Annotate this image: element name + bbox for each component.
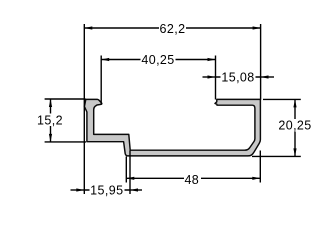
svg-text:15,08: 15,08 <box>221 70 254 84</box>
svg-text:15,2: 15,2 <box>37 114 63 128</box>
dimension 62,2 : extension line left (long, shared with 15,95) <box>83 24 85 194</box>
svg-text:20,25: 20,25 <box>278 119 311 133</box>
dimension 15,95 : right arrow (outside, pointing left) <box>130 188 138 191</box>
dimension 15,08 : left outside tail <box>203 76 216 78</box>
dimension 15,95 : left arrow (outside, pointing right) <box>76 188 84 191</box>
dimension 15,08 : left arrow (outside, pointing right) <box>208 75 216 78</box>
dimension 15,2 : top arrow <box>49 99 52 107</box>
dimension 62,2 : dimension line <box>84 27 260 29</box>
dimension 48 : left arrow <box>126 177 134 180</box>
dimension 20,25 : top arrow <box>293 99 296 107</box>
dimension 20,25 : bottom arrow <box>293 148 296 156</box>
dimension 15,95 : extension line right <box>129 151 131 195</box>
dimension 40,25 : right arrow <box>208 58 216 61</box>
dimension 20,25 : text label <box>278 119 313 132</box>
dimension 48 : text label <box>184 173 201 185</box>
dimension 15,2 : bottom arrow <box>49 134 52 142</box>
dimension 15,2 : dimension line <box>50 99 52 142</box>
dimension 48 : extension line left <box>125 157 127 183</box>
dimension 48 : right arrow <box>252 177 260 180</box>
dimension 15,08 : right arrow (outside, pointing left) <box>261 75 269 78</box>
dimension 15,2 : extension line bottom <box>45 141 86 143</box>
svg-text:15,95: 15,95 <box>90 184 123 198</box>
dimension 20,25 : dimension line <box>294 99 296 156</box>
dimension 40,25 : dimension line <box>101 59 215 61</box>
dimension 40,25 : extension line right (shared with 15,08) <box>215 56 217 100</box>
dimension 62,2 : extension line right upper <box>260 24 262 100</box>
dimension 48 : dimension line <box>126 177 260 179</box>
dimension 40,25 : extension line left <box>100 56 102 105</box>
svg-text:40,25: 40,25 <box>141 53 174 67</box>
dimension 15,95 : right outside tail <box>130 189 142 191</box>
svg-text:48: 48 <box>184 173 199 187</box>
dimension 40,25 : left arrow <box>101 58 109 61</box>
profile cross-section outline <box>84 99 260 155</box>
svg-text:62,2: 62,2 <box>160 22 186 36</box>
dimension 62,2 : left arrow <box>84 26 92 29</box>
dimension 15,95 : left outside tail <box>71 189 85 191</box>
dimension 15,08 : dimension line between extension lines <box>216 76 261 78</box>
dimension 40,25 : text label <box>141 53 176 66</box>
dimension 20,25 : extension line top <box>263 98 301 100</box>
dimension 62,2 : text label <box>159 22 186 35</box>
dimension 15,95 : dimension line between extension lines <box>84 189 130 191</box>
dimension 15,95 : text label <box>90 184 125 197</box>
dimension 15,08 : right outside tail <box>261 76 275 78</box>
dimension 20,25 : extension line bottom <box>252 155 301 157</box>
dimension 15,08 : text label <box>221 70 256 83</box>
dimension 15,2 : extension line top <box>45 98 86 100</box>
dimension 62,2 : right arrow <box>253 26 261 29</box>
dimension 15,2 : text label <box>37 114 64 127</box>
dimension 48 : extension line right (shared below profile) <box>259 151 261 183</box>
